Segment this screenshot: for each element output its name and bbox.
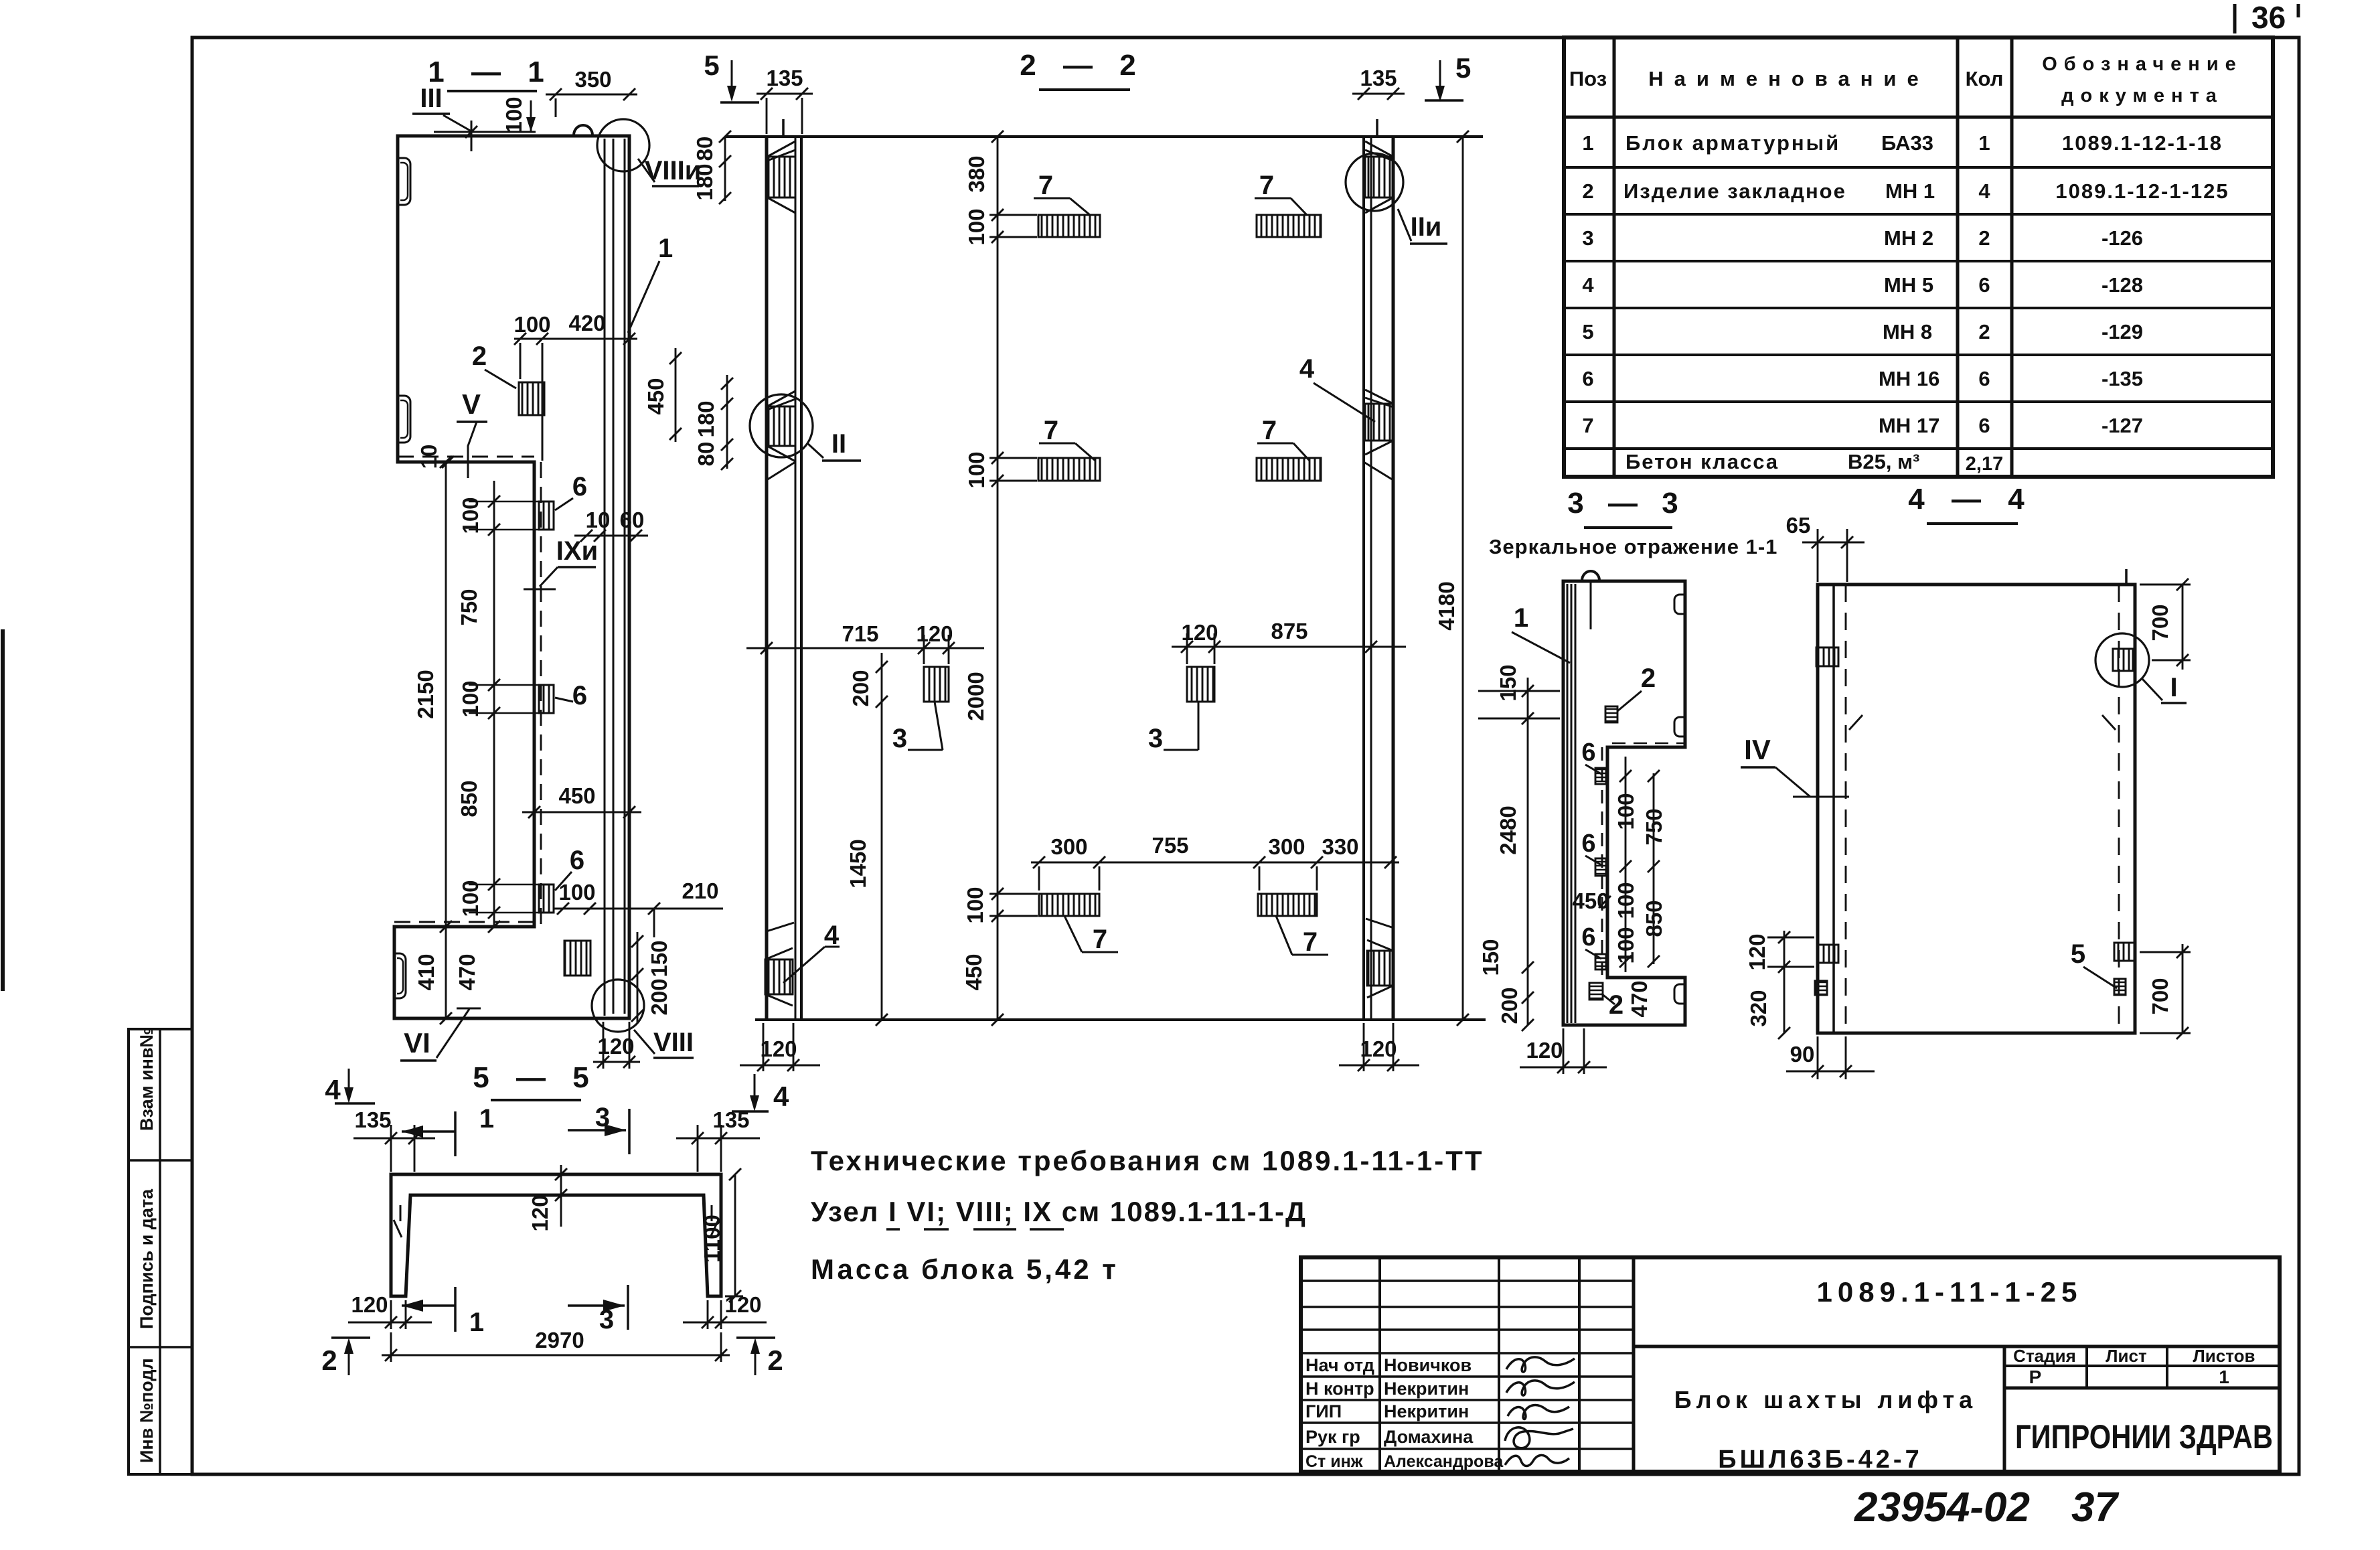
svg-text:380: 380 [964,155,989,192]
svg-text:100: 100 [1613,793,1638,830]
svg-text:150: 150 [647,940,671,977]
svg-text:МН 2: МН 2 [1884,226,1933,250]
svg-text:7: 7 [1262,416,1277,445]
svg-text:ГИП: ГИП [1305,1401,1342,1421]
svg-text:Взам инв№: Взам инв№ [137,1027,157,1131]
svg-text:1100: 1100 [700,1215,724,1263]
svg-text:-129: -129 [2101,320,2143,343]
svg-text:Инв №подл: Инв №подл [137,1358,157,1463]
svg-text:1: 1 [1514,603,1528,633]
svg-text:7: 7 [1303,927,1318,957]
svg-text:МН 1: МН 1 [1885,179,1935,203]
svg-text:100: 100 [1613,882,1638,919]
svg-text:-128: -128 [2101,273,2143,297]
svg-text:450: 450 [1572,888,1609,913]
svg-text:1: 1 [1582,131,1593,155]
svg-text:2 — 2: 2 — 2 [1020,49,1145,82]
svg-text:4: 4 [773,1081,789,1112]
svg-text:850: 850 [457,780,481,817]
svg-text:200: 200 [848,670,873,706]
svg-text:100: 100 [458,497,483,534]
svg-text:7: 7 [1093,925,1107,954]
svg-text:10: 10 [586,508,611,532]
svg-text:II: II [831,429,846,459]
svg-text:6: 6 [572,472,587,501]
svg-text:120: 120 [1360,1036,1397,1061]
svg-text:120: 120 [351,1292,388,1317]
svg-text:350: 350 [574,67,611,92]
svg-text:755: 755 [1152,833,1188,858]
svg-text:III: III [420,84,442,113]
svg-text:Листов: Листов [2193,1346,2255,1366]
svg-text:Поз: Поз [1569,67,1607,90]
svg-text:IV: IV [1744,734,1771,765]
svg-text:БШЛ63Б-42-7: БШЛ63Б-42-7 [1718,1446,1922,1474]
svg-text:80: 80 [692,137,717,161]
svg-text:5: 5 [1582,320,1593,343]
svg-text:4180: 4180 [1434,581,1459,630]
svg-text:Бетон класса: Бетон класса [1625,450,1779,473]
svg-text:3: 3 [1148,724,1163,753]
svg-text:715: 715 [842,621,878,646]
svg-text:120: 120 [528,1194,552,1231]
svg-text:100: 100 [501,96,526,133]
svg-text:300: 300 [1268,834,1305,859]
svg-text:-127: -127 [2101,414,2143,437]
svg-text:2: 2 [321,1344,337,1376]
svg-text:135: 135 [354,1107,391,1132]
svg-text:470: 470 [455,953,479,990]
svg-text:1: 1 [2219,1367,2229,1387]
svg-text:IIи: IIи [1411,212,1442,242]
svg-text:2000: 2000 [963,672,988,720]
svg-text:VIII: VIII [653,1028,694,1057]
svg-text:7: 7 [1259,171,1274,200]
svg-text:6: 6 [1581,923,1595,951]
svg-text:2: 2 [1609,990,1623,1020]
svg-text:Ст инж: Ст инж [1305,1452,1363,1471]
svg-text:Лист: Лист [2106,1346,2147,1366]
svg-text:1: 1 [1978,131,1990,155]
svg-text:80: 80 [694,442,718,467]
svg-text:4: 4 [325,1074,341,1105]
svg-text:2: 2 [767,1344,783,1376]
svg-text:100: 100 [513,312,550,337]
svg-text:4: 4 [1582,273,1594,297]
svg-text:1089.1-12-1-18: 1089.1-12-1-18 [2062,131,2223,155]
svg-text:2: 2 [1582,179,1593,203]
svg-text:Домахина: Домахина [1384,1427,1474,1447]
svg-text:700: 700 [2148,604,2172,641]
svg-text:Зеркальное отражение 1-1: Зеркальное отражение 1-1 [1489,535,1777,558]
svg-text:6: 6 [570,846,584,875]
svg-text:6: 6 [1978,367,1990,390]
svg-text:ГИПРОНИИ ЗДРАВ: ГИПРОНИИ ЗДРАВ [2015,1418,2273,1456]
svg-text:3 — 3: 3 — 3 [1567,487,1686,520]
svg-text:6: 6 [1581,739,1595,767]
svg-text:-126: -126 [2101,226,2143,250]
svg-text:6: 6 [1581,830,1595,858]
svg-text:60: 60 [620,508,645,532]
svg-text:6: 6 [572,681,587,710]
svg-text:1089.1-12-1-125: 1089.1-12-1-125 [2055,179,2229,203]
svg-text:470: 470 [1627,980,1652,1017]
svg-text:135: 135 [1360,66,1397,90]
svg-text:5: 5 [1455,52,1471,84]
svg-text:320: 320 [1746,990,1771,1026]
svg-text:7: 7 [1038,171,1053,200]
svg-text:4 — 4: 4 — 4 [1908,483,2033,516]
svg-text:2: 2 [1978,320,1990,343]
svg-text:120: 120 [1181,620,1218,645]
svg-text:Узел I VI; VIII; IX см 1089.: Узел I VI; VIII; IX см 1089.1-11-1-Д [811,1196,1307,1227]
svg-text:36: 36 [2251,0,2286,35]
svg-text:750: 750 [1642,808,1666,845]
svg-text:23954-02 37: 23954-02 37 [1854,1484,2119,1531]
svg-text:330: 330 [1322,834,1358,859]
svg-text:3: 3 [892,724,907,753]
svg-text:МН 8: МН 8 [1883,320,1932,343]
svg-text:3: 3 [595,1103,610,1132]
svg-text:6: 6 [1582,367,1593,390]
svg-text:100: 100 [1613,927,1638,963]
svg-text:V: V [462,388,481,420]
svg-text:Некритин: Некритин [1384,1379,1469,1399]
svg-text:Некритин: Некритин [1384,1401,1469,1421]
svg-text:700: 700 [2148,978,2172,1014]
svg-text:7: 7 [1044,416,1058,445]
svg-text:2,17: 2,17 [1966,453,2003,475]
svg-text:210: 210 [682,878,718,903]
svg-text:7: 7 [1582,414,1593,437]
svg-text:450: 450 [961,953,986,990]
svg-text:100: 100 [558,880,595,905]
svg-text:Блок арматурный: Блок арматурный [1625,131,1840,155]
svg-text:90: 90 [1790,1042,1815,1067]
svg-text:450: 450 [558,783,595,808]
svg-text:Технические требования см 10: Технические требования см 1089.1-11-1-ТТ [811,1145,1484,1176]
svg-text:875: 875 [1271,619,1307,643]
svg-text:100: 100 [964,208,989,245]
svg-text:300: 300 [1050,834,1087,859]
svg-text:2: 2 [1978,226,1990,250]
svg-text:100: 100 [458,680,483,717]
svg-text:МН 5: МН 5 [1884,273,1933,297]
svg-text:150: 150 [1478,939,1503,976]
svg-text:200: 200 [647,978,671,1015]
svg-text:6: 6 [1978,414,1990,437]
svg-text:Блок шахты лифта: Блок шахты лифта [1674,1386,1977,1413]
svg-text:150: 150 [1496,664,1520,701]
svg-text:1: 1 [658,234,673,263]
svg-text:VI: VI [404,1027,430,1059]
svg-text:4: 4 [824,921,840,950]
svg-text:2970: 2970 [535,1328,584,1352]
svg-text:5: 5 [704,50,719,81]
svg-text:750: 750 [457,589,481,625]
svg-text:-135: -135 [2101,367,2143,390]
svg-text:Нач отд: Нач отд [1305,1355,1374,1375]
svg-text:Новичков: Новичков [1384,1355,1472,1375]
svg-text:1: 1 [469,1308,484,1337]
svg-text:2: 2 [1641,664,1656,693]
svg-text:120: 120 [1526,1038,1563,1063]
svg-text:420: 420 [568,311,605,335]
svg-text:100: 100 [963,886,987,923]
svg-text:180: 180 [694,400,718,437]
svg-text:6: 6 [1978,273,1990,297]
svg-text:120: 120 [916,621,953,646]
svg-text:10: 10 [416,445,441,469]
svg-text:Обозначение: Обозначение [2042,54,2243,75]
svg-text:100: 100 [458,880,483,917]
svg-text:1 — 1: 1 — 1 [428,56,553,88]
svg-text:МН 16: МН 16 [1879,367,1939,390]
svg-text:2480: 2480 [1496,805,1520,854]
svg-text:4: 4 [1978,179,1990,203]
svg-text:Подпись и дата: Подпись и дата [137,1188,157,1329]
svg-text:135: 135 [712,1107,749,1132]
svg-text:Изделие закладное: Изделие закладное [1623,179,1846,203]
svg-text:3: 3 [599,1305,614,1334]
svg-text:Н контр: Н контр [1305,1379,1374,1399]
svg-text:200: 200 [1497,987,1522,1024]
svg-text:1450: 1450 [846,839,870,888]
svg-text:1: 1 [479,1104,494,1134]
svg-text:Кол: Кол [1966,67,2004,90]
svg-text:Рук гр: Рук гр [1305,1427,1360,1447]
svg-text:документа: документа [2061,85,2223,106]
svg-text:2150: 2150 [413,670,438,718]
svg-text:Александрова: Александрова [1384,1452,1504,1471]
svg-text:850: 850 [1642,900,1666,937]
svg-text:Стадия: Стадия [2013,1346,2076,1366]
svg-text:Наименование: Наименование [1648,67,1929,90]
svg-text:120: 120 [1745,933,1769,970]
svg-text:I: I [2170,673,2177,702]
svg-text:МН 17: МН 17 [1879,414,1939,437]
svg-text:1089.1-11-1-25: 1089.1-11-1-25 [1817,1276,2083,1308]
svg-text:135: 135 [766,66,803,90]
svg-text:5 — 5: 5 — 5 [473,1061,598,1094]
svg-text:180: 180 [692,163,717,200]
svg-text:120: 120 [760,1036,797,1061]
svg-text:65: 65 [1786,513,1811,538]
svg-text:2: 2 [472,341,487,371]
svg-text:450: 450 [643,378,668,414]
svg-text:410: 410 [414,953,439,990]
svg-text:5: 5 [2071,939,2085,969]
svg-text:Масса блока 5,42 т: Масса блока 5,42 т [811,1253,1119,1285]
svg-text:Р: Р [2029,1367,2042,1387]
svg-text:БА33: БА33 [1881,131,1933,155]
svg-text:4: 4 [1299,354,1315,384]
svg-text:В25, м³: В25, м³ [1848,450,1919,473]
svg-text:IXи: IXи [556,536,598,566]
svg-text:3: 3 [1582,226,1593,250]
svg-text:100: 100 [964,451,989,488]
